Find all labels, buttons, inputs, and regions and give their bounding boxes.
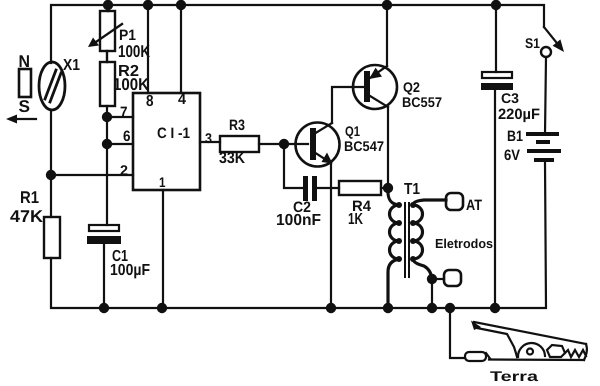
node T1 primary ground junction: [383, 303, 393, 313]
svg-text:B1: B1: [507, 128, 523, 145]
wire Q1 collector to Q2 base: [332, 87, 364, 123]
node C3 rail junction: [491, 0, 501, 10]
node pin6 junction: [102, 139, 112, 149]
wire C2 to R4: [317, 187, 339, 189]
wire secondary bottom to rail: [431, 279, 433, 308]
svg-text:N: N: [19, 52, 31, 71]
node C3 ground junction: [490, 303, 500, 313]
resistor R1: [44, 217, 60, 258]
wire pin 8: [147, 5, 149, 93]
wire pin 6: [107, 143, 133, 145]
node T1 secondary ground junction: [427, 303, 437, 313]
transformer T1 secondary: [410, 200, 446, 279]
svg-text:6V: 6V: [504, 147, 520, 164]
wire Q1 base node down to C2: [284, 144, 303, 188]
svg-text:BC557: BC557: [402, 94, 442, 110]
node X1 R1 pin2 junction: [46, 170, 56, 180]
node Terra ground junction: [445, 303, 455, 313]
svg-text:2: 2: [120, 162, 128, 178]
node T1 secondary bottom junction: [427, 274, 437, 284]
node pin7 junction: [102, 112, 112, 122]
wire bottom ground rail with R1 drop and right riser to B1: [51, 162, 546, 308]
wire R3 to Q1 base: [259, 143, 308, 145]
capacitor C1: [87, 225, 121, 308]
svg-text:Q1: Q1: [345, 123, 360, 139]
capacitor C2: [303, 176, 317, 201]
svg-text:C3: C3: [501, 90, 519, 106]
svg-text:47K: 47K: [10, 207, 44, 226]
magnet N-S symbol: [19, 69, 31, 97]
svg-text:4: 4: [178, 91, 187, 108]
svg-text:8: 8: [146, 93, 154, 110]
svg-text:S1: S1: [525, 35, 540, 51]
svg-text:AT: AT: [466, 197, 482, 214]
svg-text:6: 6: [123, 128, 131, 145]
svg-text:1K: 1K: [348, 211, 363, 228]
svg-text:R3: R3: [229, 117, 245, 134]
wire pin 3: [200, 141, 220, 143]
magnet motion arrow: [6, 115, 36, 124]
svg-text:X1: X1: [63, 57, 80, 74]
node Q1 emitter ground junction: [326, 303, 336, 313]
wire pin 4: [180, 5, 182, 93]
svg-text:T1: T1: [404, 181, 420, 198]
svg-text:Eletrodos: Eletrodos: [435, 236, 493, 251]
wire Q2 emitter to top rail: [386, 5, 388, 66]
wire secondary bottom to terminal: [432, 278, 444, 280]
svg-text:Q2: Q2: [403, 79, 420, 95]
svg-text:100K: 100K: [118, 42, 151, 61]
transformer T1 primary: [388, 193, 402, 308]
node P1 top rail junction: [103, 0, 113, 10]
IC CI-1 box: [133, 93, 200, 190]
resistor R2: [100, 51, 115, 106]
node Q2 emitter rail junction: [382, 0, 392, 10]
svg-text:Terra: Terra: [490, 368, 538, 384]
wire X1 bottom to node A: [50, 110, 52, 175]
switch S1: [541, 27, 564, 134]
wire pin 7: [107, 116, 133, 118]
transistor Q2: [353, 65, 397, 109]
svg-text:R1: R1: [20, 188, 39, 207]
capacitor C3: [481, 5, 513, 308]
wire R4 to node: [381, 187, 388, 189]
wire top supply rail with left drop to X1 and right stub to S1: [51, 5, 544, 63]
svg-text:BC547: BC547: [344, 138, 384, 154]
svg-text:7: 7: [120, 104, 128, 121]
node pin1 ground junction: [157, 303, 167, 313]
transistor Q1: [296, 123, 340, 167]
resistor R3: [220, 136, 259, 152]
svg-text:33K: 33K: [219, 150, 245, 167]
wire R2 bottom to C1: [106, 106, 108, 225]
svg-text:3: 3: [205, 130, 212, 146]
svg-text:100K: 100K: [113, 75, 150, 94]
svg-text:S: S: [19, 97, 31, 116]
svg-text:1: 1: [159, 174, 166, 190]
potentiometer P1: [93, 5, 122, 51]
ground alligator clip Terra: [465, 321, 587, 362]
wire node A to R1 top: [50, 175, 52, 217]
wire pin 1: [162, 190, 164, 308]
wire Q1 emitter to ground rail: [330, 163, 332, 308]
node R4 Q2 T1 junction: [383, 183, 393, 193]
svg-text:220µF: 220µF: [498, 106, 540, 123]
wire Terra lead: [450, 308, 465, 358]
transformer T1 core: [404, 203, 406, 277]
wire pin 2: [51, 174, 133, 176]
svg-text:C I -1: C I -1: [157, 125, 190, 142]
terminal AT: [446, 193, 463, 210]
reed switch X1: [39, 62, 65, 110]
svg-text:100nF: 100nF: [276, 212, 321, 229]
svg-text:100µF: 100µF: [110, 262, 150, 279]
resistor R4: [339, 181, 381, 195]
node C1 ground junction: [99, 303, 109, 313]
node pin4 rail junction: [176, 0, 186, 10]
battery B1: [528, 134, 559, 160]
node R3 Q1 C2 junction: [279, 139, 289, 149]
terminal electrode 2: [444, 270, 461, 286]
wire Q2 collector to T1: [387, 107, 389, 195]
node pin8 rail junction: [143, 0, 153, 10]
